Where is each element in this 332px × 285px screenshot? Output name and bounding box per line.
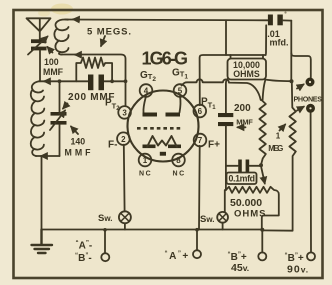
- wire top (plate lead): [65, 19, 268, 22]
- antenna: [27, 18, 51, 40]
- wire pin7 down: [198, 146, 201, 230]
- svg-text:“A”+: “A”+: [165, 250, 190, 262]
- svg-text:200: 200: [234, 103, 251, 114]
- pin 2: [117, 132, 130, 145]
- pin 6: [194, 105, 207, 118]
- svg-text:“B”+: “B”+: [285, 252, 304, 264]
- svg-text:MMF: MMF: [43, 67, 64, 77]
- pin numbers: [121, 87, 203, 166]
- pin 8: [172, 154, 185, 167]
- svg-text:3: 3: [122, 109, 127, 118]
- coil L1 (tuning coil): [31, 81, 45, 156]
- wire coil bottom: [36, 155, 60, 157]
- svg-text:8: 8: [176, 156, 181, 165]
- leader 1 meg: [280, 125, 286, 131]
- capacitor 200 MMF (grid): [88, 75, 104, 91]
- capacitor 140 MMF (variable tuning): [50, 81, 67, 156]
- wire plate load to 1 MEG node: [266, 80, 292, 82]
- switch Sw1: [119, 211, 131, 229]
- terminal B+45: [258, 228, 266, 261]
- plate T1 internal: [166, 96, 181, 116]
- svg-text:50.000: 50.000: [230, 197, 262, 209]
- leader 140 mmf: [71, 127, 78, 135]
- svg-text:Sw.: Sw.: [98, 213, 113, 224]
- plate T2 internal: [143, 96, 158, 116]
- wire phones feed: [290, 21, 292, 82]
- wire tank top: [39, 80, 126, 82]
- svg-text:NC: NC: [173, 171, 186, 178]
- terminal A+: [193, 228, 201, 258]
- resistor 1 MEG: [263, 81, 296, 231]
- leader 200 mmf right: [238, 126, 246, 128]
- node RC right: [110, 79, 114, 83]
- leader 100 mmf: [48, 47, 53, 53]
- switch Sw2: [217, 212, 228, 230]
- svg-text:100: 100: [44, 57, 59, 67]
- filament internal: [143, 136, 182, 148]
- tube V1 1G6-G envelope: [128, 91, 199, 162]
- resistor 50,000 ohms: [226, 187, 279, 230]
- svg-text:4: 4: [144, 87, 149, 96]
- svg-text:OHMS: OHMS: [233, 69, 260, 79]
- node 1 MEG top: [290, 79, 294, 83]
- svg-text:MMF: MMF: [236, 118, 253, 127]
- svg-text:140: 140: [71, 137, 86, 147]
- paper stain: [51, 4, 73, 15]
- pin 3: [118, 106, 131, 119]
- resistor R (left zigzag): [259, 100, 265, 165]
- svg-text:“B”-: “B”-: [75, 252, 92, 264]
- terminal B+90: [307, 113, 315, 261]
- capacitor 0.1 mfd: [226, 160, 261, 173]
- capacitor .01 mfd: [266, 15, 292, 56]
- pin 4: [140, 84, 153, 97]
- svg-text:OHMS: OHMS: [234, 209, 267, 220]
- tube key dot: [160, 152, 166, 156]
- wire bottom bus: [42, 229, 264, 231]
- wire pin2 to switch: [123, 145, 126, 212]
- svg-text:MMF: MMF: [65, 148, 92, 158]
- svg-text:“A”-: “A”-: [76, 240, 93, 252]
- svg-text:45v.: 45v.: [231, 262, 249, 274]
- wire grid T1: [182, 79, 261, 100]
- wire antenna to tank: [39, 51, 41, 82]
- resistor 10,000 ohms label box: [228, 59, 267, 80]
- wire top drop to box: [225, 20, 227, 55]
- wire ground drop: [41, 156, 43, 230]
- wire pin6 up and right (wire B): [200, 55, 266, 105]
- pin 5: [174, 84, 187, 97]
- terminal A-/B-: [101, 228, 109, 261]
- wire box right corner down: [263, 80, 266, 101]
- wire coupling cap down: [225, 126, 227, 190]
- svg-text:MEG: MEG: [268, 144, 283, 153]
- svg-text:F-: F-: [108, 140, 117, 151]
- pin 7: [194, 134, 207, 147]
- svg-text:0.1mfd: 0.1mfd: [229, 174, 256, 184]
- node grid-leak junction: [124, 79, 128, 83]
- svg-text:Sw.: Sw.: [200, 214, 215, 225]
- wire tickler bottom: [61, 55, 126, 106]
- wire pot tap arrow: [261, 168, 265, 184]
- capacitor 100 MMF (antenna trimmer): [28, 37, 48, 55]
- svg-text:1G6-G: 1G6-G: [142, 49, 189, 69]
- wire box to coupling cap: [226, 79, 228, 113]
- svg-text:PHONES: PHONES: [294, 95, 323, 104]
- coil L2 (tickler): [54, 20, 68, 55]
- svg-text:6: 6: [198, 107, 203, 116]
- node tank-140 junction: [58, 79, 62, 83]
- grid internal (dashed): [137, 127, 182, 130]
- svg-text:2: 2: [121, 135, 126, 144]
- svg-text:5 MEGS.: 5 MEGS.: [87, 27, 131, 38]
- svg-text:5: 5: [178, 87, 183, 96]
- wire 50k left to switch: [224, 190, 226, 212]
- svg-text:90v.: 90v.: [287, 264, 309, 276]
- svg-text:F+: F+: [208, 140, 220, 151]
- svg-text:7: 7: [198, 136, 203, 145]
- svg-text:1: 1: [143, 156, 148, 165]
- node 0.1mfd junction: [259, 163, 263, 167]
- pin 1: [139, 154, 152, 167]
- phone jack tip 2: [297, 104, 315, 113]
- resistor 5 MEGS (grid leak): [76, 58, 112, 82]
- svg-text:NC: NC: [139, 171, 152, 178]
- svg-text:mfd.: mfd.: [270, 38, 289, 48]
- ground: [32, 230, 53, 254]
- capacitor 200 MMF (coupling): [218, 113, 233, 126]
- leader 5 megs: [101, 36, 105, 46]
- leader 200 mmf left: [63, 104, 68, 109]
- phone jack tip 1: [297, 78, 315, 89]
- svg-text:1: 1: [276, 132, 281, 141]
- label box 0.1mfd: [227, 173, 257, 185]
